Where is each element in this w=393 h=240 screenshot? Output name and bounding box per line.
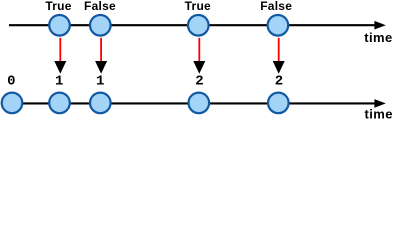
svg-text:2: 2 <box>275 74 283 90</box>
node: top event circle 4 (False) <box>268 15 289 36</box>
node: bottom event circle 4 (2) <box>189 93 210 114</box>
red arrow 1 stem <box>59 38 61 62</box>
svg-text:True: True <box>185 0 211 13</box>
svg-text:False: False <box>84 0 116 13</box>
svg-text:time: time <box>365 107 393 120</box>
red arrow 1 head <box>54 61 66 74</box>
red arrow 3 head <box>193 61 205 74</box>
top timeline arrowhead <box>374 21 385 30</box>
red arrow 4 head <box>273 61 285 74</box>
svg-text:False: False <box>260 0 292 13</box>
node: bottom event circle 1 (0) <box>2 93 23 114</box>
node: top event circle 3 (True) <box>188 15 209 36</box>
wire: top timeline axis <box>9 24 376 26</box>
wire: bottom timeline axis <box>1 102 376 104</box>
node: bottom event circle 5 (2) <box>268 93 289 114</box>
svg-text:time: time <box>364 30 392 45</box>
svg-text:2: 2 <box>195 74 203 90</box>
node: top event circle 1 (True) <box>49 15 70 36</box>
red arrow 2 stem <box>100 38 102 62</box>
node: bottom event circle 2 (1) <box>49 93 70 114</box>
red arrow 2 head <box>95 61 107 74</box>
red arrow 3 stem <box>198 38 200 62</box>
svg-text:0: 0 <box>7 74 15 90</box>
bottom timeline arrowhead <box>374 99 385 108</box>
red arrow 4 stem <box>278 38 280 62</box>
svg-text:1: 1 <box>55 74 63 90</box>
node: bottom event circle 3 (1) <box>90 93 111 114</box>
svg-text:1: 1 <box>96 74 104 90</box>
node: top event circle 2 (False) <box>90 15 111 36</box>
svg-text:True: True <box>45 0 71 13</box>
